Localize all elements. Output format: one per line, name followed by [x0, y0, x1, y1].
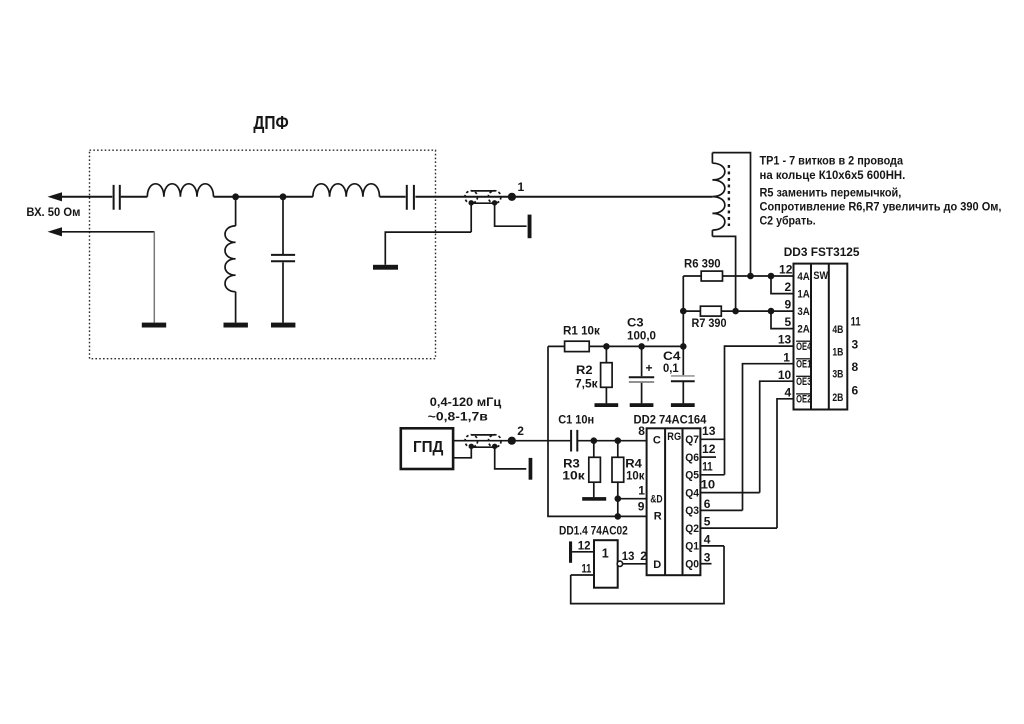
- svg-text:9: 9: [638, 499, 645, 513]
- svg-text:+: +: [646, 361, 653, 375]
- svg-text:C3: C3: [627, 315, 644, 329]
- svg-text:Q3: Q3: [685, 505, 699, 517]
- svg-text:OE2: OE2: [796, 394, 811, 406]
- svg-text:R1 10к: R1 10к: [563, 324, 601, 338]
- svg-text:OE4: OE4: [796, 341, 812, 353]
- svg-text:~0,8-1,7в: ~0,8-1,7в: [428, 409, 488, 423]
- svg-text:3A: 3A: [797, 306, 809, 318]
- svg-text:1B: 1B: [832, 346, 843, 358]
- svg-text:4: 4: [704, 533, 711, 547]
- svg-text:Сопротивление R6,R7 увеличить: Сопротивление R6,R7 увеличить до 390 Ом,: [760, 200, 1002, 214]
- svg-text:100,0: 100,0: [627, 329, 656, 343]
- svg-text:9: 9: [785, 298, 792, 312]
- svg-text:6: 6: [852, 383, 859, 397]
- svg-text:C: C: [653, 435, 661, 447]
- svg-text:6: 6: [704, 497, 711, 511]
- svg-text:4: 4: [785, 385, 792, 399]
- svg-text:ТР1 - 7 витков в 2 провода: ТР1 - 7 витков в 2 провода: [760, 154, 904, 168]
- svg-text:на кольце К10х6х5 600НН.: на кольце К10х6х5 600НН.: [760, 168, 906, 182]
- svg-text:Q1: Q1: [685, 541, 699, 553]
- svg-text:R: R: [654, 510, 662, 522]
- svg-text:R6 390: R6 390: [684, 257, 721, 271]
- svg-text:11: 11: [702, 460, 713, 474]
- svg-text:13: 13: [622, 549, 635, 563]
- svg-text:Q6: Q6: [685, 452, 699, 464]
- svg-text:10: 10: [701, 478, 716, 492]
- svg-text:4B: 4B: [832, 324, 843, 336]
- svg-text:1: 1: [783, 350, 790, 364]
- svg-text:0,4-120 мГц: 0,4-120 мГц: [430, 395, 502, 409]
- svg-text:R5 заменить перемычкой,: R5 заменить перемычкой,: [760, 185, 902, 199]
- svg-text:4A: 4A: [797, 271, 809, 283]
- svg-text:SW: SW: [813, 270, 828, 282]
- svg-text:2: 2: [517, 424, 524, 438]
- svg-text:DD3 FST3125: DD3 FST3125: [784, 245, 860, 259]
- svg-text:2B: 2B: [832, 392, 843, 404]
- svg-text:Q7: Q7: [685, 434, 699, 446]
- svg-text:1A: 1A: [797, 289, 809, 301]
- svg-text:1: 1: [638, 484, 645, 498]
- svg-text:10: 10: [778, 368, 792, 382]
- svg-text:Q4: Q4: [685, 487, 700, 499]
- svg-text:12: 12: [702, 442, 716, 456]
- svg-text:2: 2: [785, 280, 792, 294]
- svg-text:8: 8: [852, 360, 859, 374]
- svg-text:OE3: OE3: [796, 376, 811, 388]
- svg-text:7,5к: 7,5к: [575, 377, 599, 391]
- svg-text:R2: R2: [576, 363, 593, 377]
- svg-text:13: 13: [702, 424, 716, 438]
- svg-text:8: 8: [638, 424, 645, 438]
- svg-text:ГПД: ГПД: [413, 439, 444, 456]
- svg-text:R7 390: R7 390: [692, 316, 727, 330]
- svg-text:13: 13: [778, 333, 792, 347]
- svg-text:1: 1: [518, 180, 525, 194]
- svg-text:12: 12: [578, 538, 591, 552]
- svg-text:С2 убрать.: С2 убрать.: [760, 214, 816, 228]
- svg-text:ДПФ: ДПФ: [253, 113, 288, 133]
- svg-text:OE1: OE1: [796, 359, 811, 371]
- svg-text:3: 3: [852, 338, 859, 352]
- svg-text:3: 3: [704, 551, 711, 565]
- svg-text:D: D: [653, 559, 661, 571]
- svg-text:11: 11: [851, 315, 861, 329]
- svg-text:Q2: Q2: [685, 523, 699, 535]
- svg-text:DD1.4 74AC02: DD1.4 74AC02: [559, 523, 628, 537]
- svg-text:3B: 3B: [832, 369, 843, 381]
- svg-text:&D: &D: [650, 493, 662, 505]
- svg-text:C1 10н: C1 10н: [558, 413, 594, 427]
- svg-text:5: 5: [704, 515, 711, 529]
- svg-text:12: 12: [779, 263, 793, 277]
- svg-text:Q5: Q5: [685, 470, 699, 482]
- svg-text:1: 1: [602, 546, 609, 560]
- svg-text:ВХ. 50 Ом: ВХ. 50 Ом: [26, 205, 80, 219]
- svg-text:10к: 10к: [626, 469, 645, 483]
- svg-text:2A: 2A: [797, 324, 809, 336]
- svg-text:5: 5: [785, 315, 792, 329]
- svg-text:Q0: Q0: [685, 558, 699, 570]
- svg-text:0,1: 0,1: [663, 361, 679, 375]
- svg-text:RG: RG: [667, 431, 681, 443]
- svg-text:10к: 10к: [562, 469, 586, 483]
- svg-text:11: 11: [582, 561, 592, 575]
